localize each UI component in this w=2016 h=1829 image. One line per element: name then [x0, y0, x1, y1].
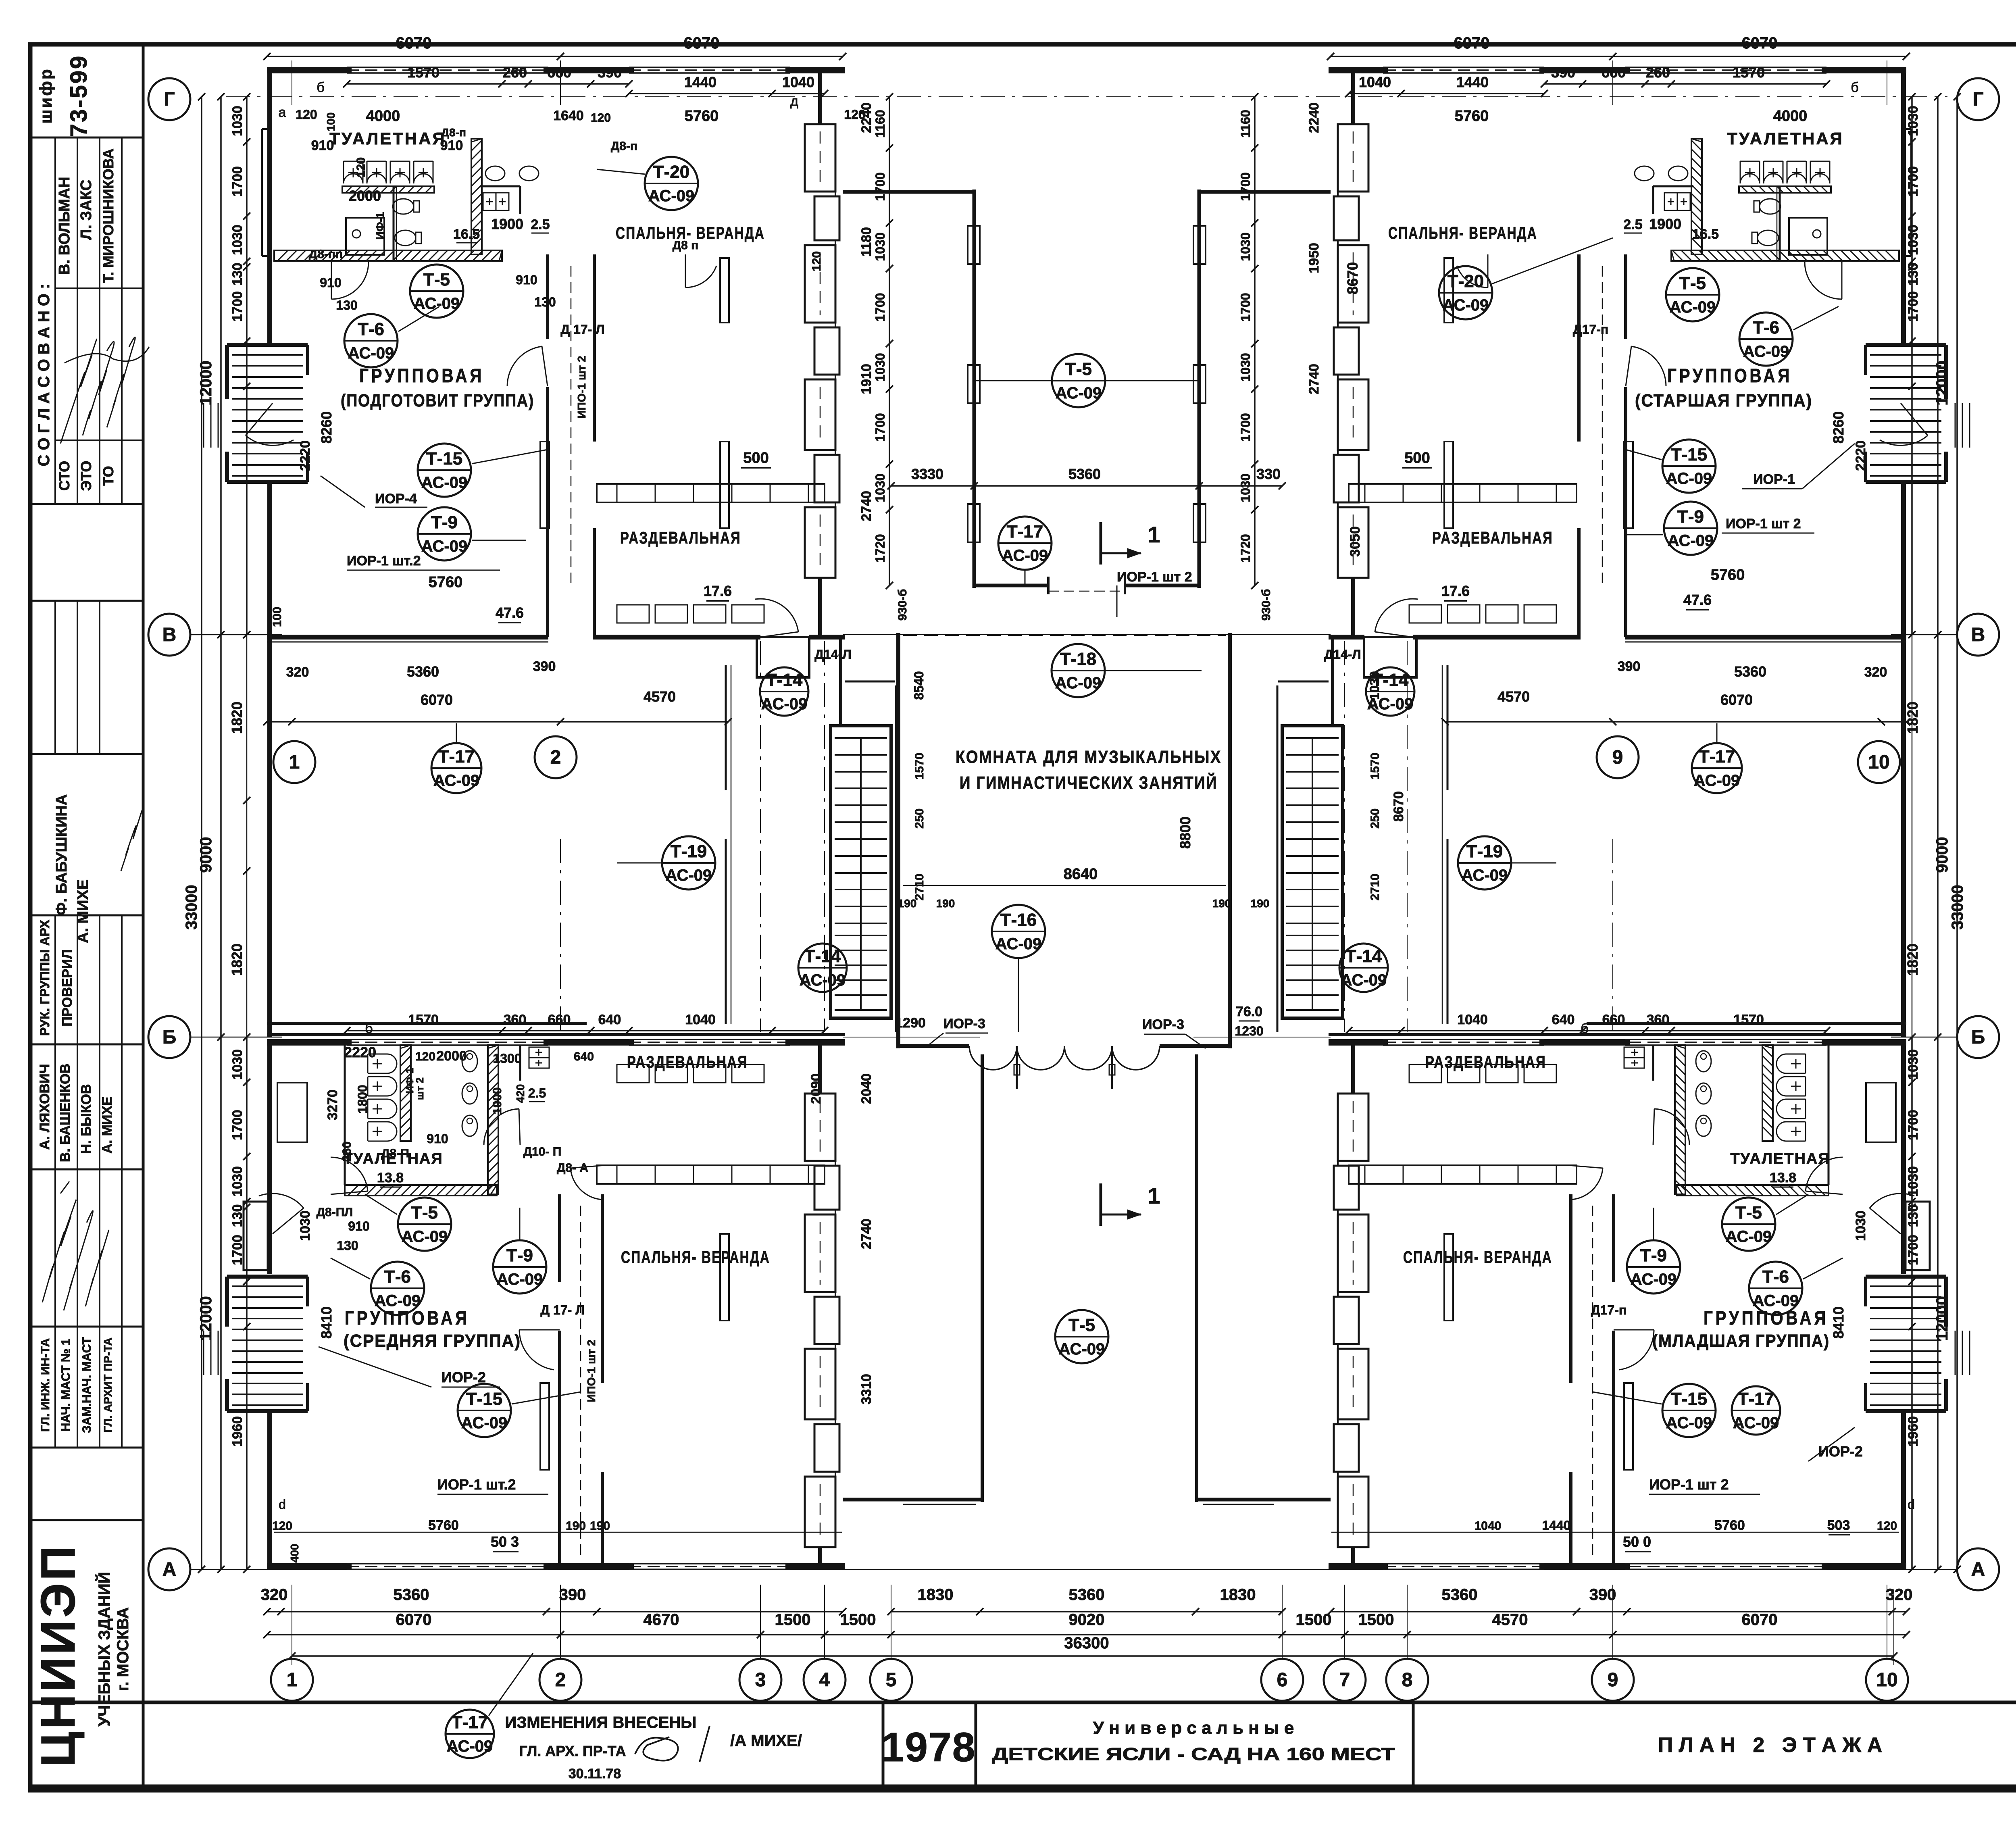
- svg-text:360: 360: [504, 1012, 527, 1027]
- tag Т-9 TL: [418, 507, 471, 560]
- svg-text:76.0: 76.0: [1236, 1004, 1262, 1019]
- node 2: [539, 1659, 581, 1701]
- svg-text:360: 360: [1647, 1012, 1670, 1027]
- svg-text:АС-09: АС-09: [1631, 1271, 1677, 1288]
- tag Т-5 BL: [398, 1198, 451, 1251]
- svg-text:Т-19: Т-19: [671, 842, 707, 861]
- washbasins: [1668, 166, 1688, 181]
- node А right: [1957, 1548, 1999, 1590]
- toilet fixtures row: [344, 161, 433, 183]
- svg-text:П Л А Н 2 Э Т А Ж А: П Л А Н 2 Э Т А Ж А: [1658, 1733, 1883, 1757]
- stair bay walls lower: [1866, 1275, 1946, 1279]
- svg-text:ИОР-1: ИОР-1: [1753, 472, 1795, 487]
- courtyard west wall: [973, 190, 976, 588]
- svg-text:1700: 1700: [1906, 291, 1921, 322]
- signatures scrawl: [60, 339, 97, 444]
- svg-text:6070: 6070: [684, 34, 720, 52]
- svg-text:Т-17: Т-17: [438, 747, 475, 767]
- door arc Д17-Л: [1631, 346, 1666, 386]
- west vestibule porch lower: [244, 1202, 268, 1270]
- svg-text:Д10- П: Д10- П: [523, 1145, 562, 1158]
- svg-text:А. ЛЯХОВИЧ: А. ЛЯХОВИЧ: [37, 1064, 52, 1150]
- svg-text:1: 1: [289, 752, 300, 773]
- svg-text:8410: 8410: [318, 1306, 335, 1339]
- east facade window units lower: [1338, 1094, 1368, 1161]
- svg-text:1440: 1440: [1542, 1518, 1570, 1533]
- bench row cloakroom: [617, 605, 649, 623]
- svg-text:ИОР-1 шт.2: ИОР-1 шт.2: [347, 553, 421, 569]
- svg-text:1700: 1700: [873, 293, 887, 321]
- revision note: [446, 1710, 494, 1758]
- signatures scrawl 2: [42, 1200, 76, 1302]
- tag Т-9 TR: [1664, 502, 1717, 555]
- svg-text:Т-6: Т-6: [384, 1267, 411, 1287]
- facade wall stub bottom: [1351, 578, 1355, 637]
- svg-text:3310: 3310: [859, 1374, 874, 1404]
- svg-text:190: 190: [936, 897, 955, 910]
- svg-text:Т-15: Т-15: [466, 1389, 502, 1409]
- door arcs lower block: [1654, 1109, 1689, 1145]
- svg-text:100: 100: [325, 112, 337, 131]
- music room east wall: [1228, 633, 1232, 1048]
- toilet stalls vertical row: [368, 1054, 397, 1141]
- bench row cloakroom lower: [1524, 1064, 1556, 1083]
- tag Т-5 TL: [410, 265, 463, 318]
- partition glazed double wall lower: [1612, 1194, 1615, 1282]
- svg-text:12000: 12000: [197, 360, 215, 405]
- svg-text:1960: 1960: [230, 1416, 245, 1447]
- svg-text:50 0: 50 0: [1623, 1533, 1651, 1550]
- svg-text:А: А: [1971, 1559, 1985, 1580]
- svg-text:6070: 6070: [396, 1611, 432, 1629]
- stair flight west upper: [232, 355, 303, 476]
- svg-text:Г: Г: [164, 89, 175, 110]
- svg-text:5360: 5360: [1069, 1586, 1105, 1604]
- svg-text:Т-20: Т-20: [653, 162, 689, 182]
- svg-text:В. ВОЛЬМАН: В. ВОЛЬМАН: [56, 177, 73, 275]
- svg-text:ИОР-3: ИОР-3: [1142, 1017, 1184, 1032]
- door arc Д8: [685, 266, 716, 287]
- courtyard window east: [1193, 504, 1206, 542]
- svg-text:9: 9: [1608, 1669, 1618, 1691]
- music room west wall: [896, 633, 900, 1048]
- svg-text:190: 190: [566, 1519, 586, 1533]
- svg-text:Т-17: Т-17: [1738, 1389, 1774, 1409]
- svg-text:5760: 5760: [1711, 567, 1745, 583]
- svg-text:1030: 1030: [1906, 1049, 1921, 1080]
- wall hatched toilet stalls: [1762, 1045, 1773, 1141]
- svg-text:640: 640: [1552, 1012, 1575, 1027]
- svg-text:910: 910: [320, 275, 341, 290]
- svg-text:(МЛАДШАЯ ГРУППА): (МЛАДШАЯ ГРУППА): [1652, 1331, 1830, 1351]
- svg-text:6: 6: [1277, 1669, 1288, 1691]
- svg-text:ГЛ. АРХИТ ПР-ТА: ГЛ. АРХИТ ПР-ТА: [102, 1337, 114, 1433]
- svg-text:д: д: [790, 94, 798, 109]
- svg-text:1440: 1440: [684, 74, 716, 90]
- double sink: [483, 193, 509, 210]
- svg-text:Т-14: Т-14: [766, 670, 803, 690]
- svg-text:1830: 1830: [1220, 1586, 1256, 1604]
- svg-text:Т-5: Т-5: [1679, 273, 1706, 293]
- svg-text:АС-09: АС-09: [433, 772, 480, 790]
- section mark 1 lower: [1100, 1183, 1102, 1226]
- svg-text:1900: 1900: [491, 1087, 504, 1114]
- svg-text:Д 17- Л: Д 17- Л: [560, 322, 604, 337]
- svg-text:5760: 5760: [429, 574, 463, 591]
- svg-text:ТУАЛЕТНАЯ: ТУАЛЕТНАЯ: [1727, 129, 1843, 148]
- svg-text:АС-09: АС-09: [402, 1228, 448, 1246]
- svg-text:390: 390: [533, 659, 556, 674]
- courtyard window west: [968, 365, 980, 403]
- tag Т-5 entrance court: [1055, 1310, 1108, 1363]
- svg-text:10: 10: [1876, 1669, 1897, 1691]
- svg-text:1978: 1978: [881, 1724, 976, 1770]
- svg-text:320: 320: [1864, 665, 1887, 680]
- svg-text:ИПО-1 шт 2: ИПО-1 шт 2: [585, 1339, 598, 1402]
- svg-text:Д17-п: Д17-п: [1591, 1303, 1627, 1317]
- cloakroom divider masonry band: [1349, 484, 1577, 502]
- svg-text:ИОР-1 шт 2: ИОР-1 шт 2: [1649, 1476, 1729, 1493]
- svg-text:1440: 1440: [1456, 74, 1489, 90]
- svg-text:2.5: 2.5: [1623, 217, 1642, 232]
- shelf band: [342, 186, 434, 193]
- transom dashed lower: [580, 1206, 581, 1556]
- svg-text:5360: 5360: [394, 1586, 429, 1604]
- dim row above bottom-right block: [1349, 1030, 1826, 1031]
- svg-text:Т-18: Т-18: [1060, 649, 1096, 669]
- svg-text:190: 190: [590, 1519, 610, 1533]
- north wall of lower block link: [1329, 1033, 1906, 1036]
- corridor wall grid5: [895, 685, 897, 1032]
- svg-text:Д8-п: Д8-п: [441, 126, 466, 139]
- svg-text:АС-09: АС-09: [414, 295, 460, 312]
- svg-text:17.6: 17.6: [1441, 583, 1470, 599]
- svg-text:Д 17- Л: Д 17- Л: [540, 1303, 584, 1317]
- svg-text:500: 500: [743, 450, 768, 467]
- svg-text:1160: 1160: [873, 110, 887, 137]
- west facade alcove: [261, 129, 263, 256]
- svg-text:33000: 33000: [1949, 885, 1966, 929]
- svg-text:1500: 1500: [775, 1611, 811, 1629]
- svg-text:(ПОДГОТОВИТ ГРУППА): (ПОДГОТОВИТ ГРУППА): [341, 391, 534, 410]
- svg-text:СПАЛЬНЯ- ВЕРАНДА: СПАЛЬНЯ- ВЕРАНДА: [1403, 1248, 1552, 1267]
- transom dashed lower: [1592, 1206, 1593, 1556]
- stair core walls: [831, 726, 891, 1018]
- svg-text:Т-15: Т-15: [426, 449, 462, 469]
- svg-text:1570: 1570: [408, 1012, 439, 1027]
- bottom-left block outer walls: [1822, 1039, 1906, 1046]
- svg-text:АС-09: АС-09: [1733, 1414, 1779, 1432]
- svg-text:Т-6: Т-6: [358, 319, 384, 339]
- dim chain bottom centre: [891, 1611, 1282, 1612]
- courtyard opening jambs: [1047, 577, 1050, 594]
- tag Т-15 BL: [458, 1384, 511, 1437]
- stair core walls: [1282, 726, 1343, 1018]
- svg-text:АС-09: АС-09: [497, 1271, 543, 1288]
- svg-text:130: 130: [336, 298, 357, 312]
- svg-text:Т-14: Т-14: [1345, 946, 1382, 966]
- svg-text:Н. БЫКОВ: Н. БЫКОВ: [79, 1084, 94, 1154]
- leader from Т-17 tag: [489, 1653, 533, 1716]
- svg-text:1820: 1820: [1904, 702, 1921, 734]
- svg-text:910: 910: [427, 1131, 448, 1146]
- dim chain bottom right block: [1331, 1611, 1906, 1612]
- tag Т-6 BR: [1749, 1262, 1802, 1315]
- svg-text:Т-14: Т-14: [804, 946, 841, 966]
- svg-text:ГРУППОВАЯ: ГРУППОВАЯ: [345, 1308, 470, 1329]
- svg-text:120: 120: [296, 107, 317, 122]
- svg-text:930-б: 930-б: [1260, 589, 1273, 621]
- svg-text:АС-09: АС-09: [348, 344, 394, 362]
- svg-text:1820: 1820: [229, 702, 245, 734]
- tag Т-14 left upper: [760, 667, 808, 716]
- top-left block outer walls: [267, 67, 352, 73]
- svg-text:500: 500: [1404, 450, 1430, 467]
- svg-text:5360: 5360: [407, 663, 439, 680]
- svg-text:320: 320: [261, 1586, 288, 1604]
- transom ИПО-1 dashed: [571, 266, 572, 585]
- svg-text:47.6: 47.6: [496, 604, 524, 621]
- svg-text:АС-09: АС-09: [1743, 343, 1789, 360]
- left strip section dividers: [30, 137, 143, 139]
- bath: [1789, 218, 1827, 255]
- svg-text:36300: 36300: [1064, 1634, 1109, 1652]
- svg-text:1500: 1500: [1296, 1611, 1332, 1629]
- svg-text:Т-17: Т-17: [1699, 747, 1735, 767]
- svg-text:6070: 6070: [1742, 1611, 1778, 1629]
- svg-text:ИОР-4: ИОР-4: [375, 491, 417, 506]
- svg-text:ЗАМ.НАЧ. МАСТ: ЗАМ.НАЧ. МАСТ: [80, 1337, 94, 1433]
- svg-text:33000: 33000: [183, 885, 200, 929]
- stair flight west lower: [232, 1286, 303, 1405]
- svg-text:1030: 1030: [873, 232, 887, 261]
- svg-text:ЦНИИЭП: ЦНИИЭП: [31, 1544, 85, 1767]
- svg-text:5360: 5360: [1734, 663, 1766, 680]
- svg-text:2.5: 2.5: [528, 1086, 546, 1100]
- facade wall stub top: [1351, 73, 1355, 124]
- svg-text:1700: 1700: [1906, 166, 1921, 197]
- svg-text:8540: 8540: [912, 671, 926, 700]
- svg-text:130: 130: [534, 295, 556, 309]
- svg-text:d: d: [279, 1497, 286, 1512]
- svg-text:130: 130: [230, 263, 245, 286]
- wall w/ door Д17-Л: [546, 387, 549, 637]
- svg-text:1700: 1700: [873, 172, 887, 201]
- stair flight central left upper: [1286, 738, 1339, 923]
- svg-text:400: 400: [288, 1544, 301, 1563]
- node Б right: [1957, 1016, 1999, 1058]
- svg-text:1700: 1700: [1238, 172, 1253, 201]
- svg-text:320: 320: [1886, 1586, 1913, 1604]
- svg-text:Т-9: Т-9: [431, 512, 458, 532]
- dim chain bottom row2: [267, 1634, 1906, 1635]
- svg-text:АС-09: АС-09: [1694, 772, 1740, 790]
- door arc toilet: [331, 262, 369, 299]
- door arcs lower block: [484, 1109, 519, 1145]
- tag Т-6 BL: [371, 1262, 424, 1315]
- svg-text:3: 3: [755, 1669, 766, 1691]
- svg-text:1030: 1030: [230, 106, 245, 136]
- dim row above bottom-left block: [347, 1030, 825, 1031]
- svg-text:320: 320: [286, 665, 309, 680]
- entrance court west wall: [981, 1054, 984, 1502]
- corridor partition: [1447, 665, 1449, 790]
- tambour walls near stair: [1331, 637, 1334, 726]
- facade wall stub bottom lower: [818, 1547, 822, 1567]
- wall hatched toilet east: [471, 139, 482, 254]
- svg-text:АС-09: АС-09: [1666, 470, 1712, 487]
- svg-text:1900: 1900: [1649, 216, 1681, 232]
- svg-text:1830: 1830: [918, 1586, 954, 1604]
- tag Т-17 midzone left: [431, 743, 481, 793]
- svg-text:Т-6: Т-6: [1762, 1267, 1789, 1287]
- svg-text:2000: 2000: [436, 1048, 467, 1064]
- svg-text:4000: 4000: [1773, 108, 1808, 125]
- dim top left row2: [347, 83, 629, 85]
- svg-text:640: 640: [574, 1050, 594, 1063]
- svg-text:1700: 1700: [230, 1110, 245, 1140]
- svg-text:АС-09: АС-09: [1462, 867, 1508, 884]
- axis 2 stub mid: [560, 839, 561, 1032]
- svg-text:1570: 1570: [1368, 753, 1382, 780]
- svg-text:Т-9: Т-9: [506, 1246, 533, 1265]
- west window niche: [1866, 1083, 1896, 1142]
- south wall of top-left block: [1625, 635, 1906, 640]
- music room north dashed opening: [903, 635, 1226, 636]
- svg-text:Т-15: Т-15: [1671, 1389, 1707, 1409]
- tag Т-20 TL: [645, 157, 698, 210]
- bottom-left block outer walls: [267, 1039, 352, 1046]
- svg-text:СПАЛЬНЯ- ВЕРАНДА: СПАЛЬНЯ- ВЕРАНДА: [621, 1248, 770, 1267]
- svg-text:ИПО-1 шт 2: ИПО-1 шт 2: [575, 356, 588, 418]
- stair entry steps: [1969, 403, 1970, 448]
- svg-text:30.11.78: 30.11.78: [569, 1766, 621, 1781]
- svg-text:1570: 1570: [1733, 1012, 1764, 1027]
- stair flight central left upper: [835, 738, 887, 923]
- svg-text:120: 120: [1877, 1519, 1897, 1533]
- west vestibule porch lower: [1906, 1202, 1930, 1270]
- svg-text:d: d: [1908, 1497, 1915, 1512]
- svg-text:В. БАШЕНКОВ: В. БАШЕНКОВ: [58, 1064, 73, 1162]
- svg-text:1030: 1030: [1906, 1166, 1921, 1197]
- svg-text:2740: 2740: [859, 1219, 874, 1249]
- midzone dim line: [1445, 721, 1906, 723]
- small partitions near sinks: [480, 185, 520, 187]
- svg-text:120: 120: [272, 1519, 292, 1533]
- partition glazed double wall: [546, 254, 549, 339]
- svg-text:ИОР-2: ИОР-2: [442, 1369, 486, 1385]
- right overall chains mirrored: [1956, 97, 1958, 1569]
- svg-text:390: 390: [559, 1586, 586, 1604]
- svg-text:5760: 5760: [428, 1518, 459, 1533]
- svg-text:1030: 1030: [1238, 232, 1253, 261]
- corridor partition: [725, 665, 727, 790]
- south wall with windows: [1822, 1563, 1906, 1570]
- svg-text:250: 250: [913, 808, 926, 829]
- svg-text:1700: 1700: [1238, 293, 1253, 321]
- stair bay walls: [1866, 343, 1946, 347]
- svg-text:ЭТО: ЭТО: [78, 461, 94, 491]
- svg-text:ИОР-3: ИОР-3: [943, 1016, 985, 1031]
- svg-text:Т-9: Т-9: [1677, 507, 1704, 527]
- tag Т-17 BR: [1732, 1386, 1780, 1435]
- svg-text:9000: 9000: [197, 837, 215, 873]
- entrance court east wall: [1195, 1054, 1198, 1502]
- svg-text:ИЗМЕНЕНИЯ ВНЕСЕНЫ: ИЗМЕНЕНИЯ ВНЕСЕНЫ: [505, 1714, 697, 1731]
- toilets (wc) lower: [1696, 1051, 1711, 1072]
- svg-text:А: А: [162, 1559, 177, 1580]
- dim chain east facade upper: [1911, 97, 1913, 635]
- washbasins: [485, 166, 505, 181]
- grid axis lines horizontal: [226, 96, 1947, 97]
- svg-text:ГРУППОВАЯ: ГРУППОВАЯ: [1704, 1308, 1829, 1329]
- svg-text:1290: 1290: [895, 1015, 926, 1031]
- svg-text:8800: 8800: [1177, 817, 1193, 849]
- svg-text:17.6: 17.6: [704, 583, 732, 599]
- svg-text:Ф. БАБУШКИНА: Ф. БАБУШКИНА: [53, 794, 70, 915]
- partition ИФ-1: [1779, 185, 1781, 262]
- svg-text:1820: 1820: [229, 944, 245, 976]
- double sink lower: [1624, 1047, 1644, 1068]
- svg-text:б: б: [365, 1021, 373, 1036]
- svg-text:ГРУППОВАЯ: ГРУППОВАЯ: [359, 365, 484, 387]
- wall hatched toilet south lower: [1677, 1185, 1829, 1196]
- courtyard south wall right: [1125, 584, 1199, 587]
- wall hatched toilet east lower: [488, 1045, 498, 1194]
- svg-text:120: 120: [354, 157, 368, 177]
- svg-text:ИОР-1 шт 2: ИОР-1 шт 2: [1117, 569, 1192, 585]
- svg-text:АС-09: АС-09: [421, 537, 468, 555]
- svg-text:Б: Б: [162, 1027, 177, 1048]
- node 9: [1592, 1659, 1634, 1701]
- tag Т-14 right upper: [1366, 667, 1414, 716]
- dim top right row2b: [1349, 93, 1544, 94]
- dim line under courtyard: [891, 485, 1282, 487]
- transom ИПО-1 dashed: [1602, 266, 1603, 585]
- tag Т-15 BR: [1662, 1384, 1716, 1437]
- svg-text:910: 910: [348, 1219, 369, 1233]
- node В right: [1957, 614, 1999, 656]
- svg-text:г. МОСКВА: г. МОСКВА: [114, 1607, 132, 1691]
- svg-text:Д17-п: Д17-п: [1573, 322, 1608, 337]
- svg-text:1820: 1820: [1904, 944, 1921, 976]
- svg-text:120: 120: [810, 251, 823, 271]
- svg-text:АС-09: АС-09: [1443, 296, 1489, 314]
- svg-text:ТУАЛЕТНАЯ: ТУАЛЕТНАЯ: [1730, 1150, 1830, 1167]
- svg-text:130: 130: [1906, 263, 1921, 286]
- svg-text:4670: 4670: [644, 1611, 679, 1629]
- svg-text:5360: 5360: [1068, 466, 1101, 482]
- svg-text:АС-09: АС-09: [648, 187, 695, 205]
- node А left: [148, 1548, 190, 1590]
- west wall mid: [1901, 637, 1906, 1037]
- svg-text:250: 250: [1368, 808, 1382, 829]
- facade wall stub top: [818, 73, 822, 124]
- svg-text:2740: 2740: [859, 491, 874, 521]
- east facade window units: [805, 124, 835, 192]
- svg-text:6070: 6070: [1742, 34, 1778, 52]
- svg-text:5760: 5760: [685, 108, 719, 125]
- svg-text:АС-09: АС-09: [761, 695, 808, 713]
- radiator niches: [1444, 258, 1453, 323]
- east facade window units lower: [805, 1094, 835, 1161]
- svg-text:а: а: [279, 105, 286, 120]
- svg-text:3330: 3330: [911, 466, 943, 482]
- svg-text:503: 503: [1827, 1518, 1850, 1533]
- svg-text:390: 390: [1618, 659, 1641, 674]
- toilets (wc) lower: [462, 1051, 477, 1072]
- svg-text:РАЗДЕВАЛЬНАЯ: РАЗДЕВАЛЬНАЯ: [1432, 528, 1553, 547]
